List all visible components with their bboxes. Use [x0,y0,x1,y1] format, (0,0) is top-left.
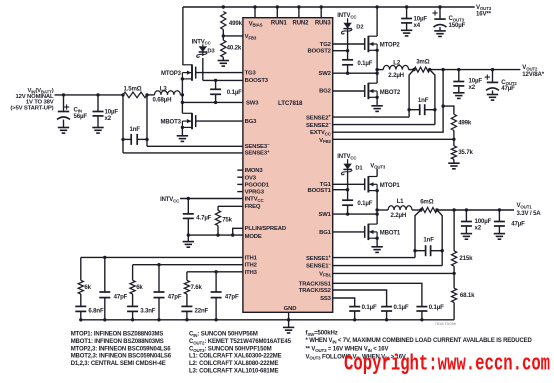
resistor 7.6k ITH3 [184,272,202,294]
pin TG2 label [320,42,332,48]
svg-text:PGOOD1: PGOOD1 [245,183,270,189]
pin SENSE3- label [245,142,270,150]
transistor MTOP2 [365,36,401,52]
svg-text:0.1µF: 0.1µF [362,304,377,311]
wire SW3 to IC [182,101,243,103]
wire SENSE1- to IC [333,265,443,267]
svg-text:MTOP2: MTOP2 [380,43,401,49]
svg-text:1nF: 1nF [418,97,429,104]
svg-text:COUT2: KEMET T521W476M016ATE45: COUT2: KEMET T521W476M016ATE45 [189,338,292,345]
wire SENSE2+ kelvin [407,70,414,118]
capacitor 3.3nF ITH2 [127,294,156,320]
ground below MBOT2 [371,97,382,111]
svg-text:1nF: 1nF [423,237,434,244]
svg-text:47µF: 47µF [511,220,525,227]
svg-text:RUN1: RUN1 [271,21,288,27]
wire BG3 gate wire [196,120,243,122]
pin GND label [284,306,297,312]
resistor 1.5mOhm sense [121,85,148,97]
pin RUN1 label [271,21,288,27]
wire 75k to gnd rail [216,226,219,237]
pin MODE label [245,234,262,240]
svg-text:499k: 499k [458,119,472,126]
resistor 75k FREQ [215,210,232,225]
svg-text:SENSE2−​: SENSE2−​ [306,121,331,129]
resistor 3mOhm sense ch2 [412,58,431,72]
svg-text:0.1µF: 0.1µF [357,60,372,67]
transistor MTOP1 [365,176,401,192]
svg-text:x2: x2 [469,84,476,91]
wire RUN1 pin stub [276,5,279,17]
wire INTVCC to IC [180,197,243,200]
svg-text:VFB2​: VFB2​ [319,138,331,144]
svg-text:TG2: TG2 [320,42,332,48]
svg-text:MTOP1: INFINEON BSZ088N03MS: MTOP1: INFINEON BSZ088N03MS [71,332,164,338]
pin TG1 label [320,182,332,188]
wire PGOOD1 pin stub [237,183,243,185]
svg-text:MBOT2,3: INFINEON BSC059N04LS6: MBOT2,3: INFINEON BSC059N04LS6 [71,354,172,360]
wire SW1 rail segment [375,191,378,225]
pin IMON3 label [245,168,264,174]
svg-text:6.8nF: 6.8nF [88,307,104,314]
svg-text:6mΩ: 6mΩ [420,199,434,206]
pin RUN3 label [315,21,332,27]
wire VFB2 divider tap jog [443,106,454,114]
wire BG2 gate wire [333,90,365,92]
svg-text:Copyright:www.eccn.com: Copyright:www.eccn.com [344,351,550,376]
capacitor 1nF ch3 filter [121,126,148,145]
wire VIN rail [55,94,124,96]
note copyright watermark [344,351,550,376]
svg-text:0.1µF: 0.1µF [357,200,372,207]
wire SENSE1- kelvin [437,210,444,266]
svg-text:INTVCC​: INTVCC​ [160,197,180,203]
wire 68.1k to ground rail [453,303,455,320]
svg-text:0.68µH: 0.68µH [153,97,172,104]
wire TG3 gate wire [196,72,243,74]
wire TG1 gate wire [333,183,365,185]
pin SENSE2+ label [306,114,331,122]
pin TG3 label [245,70,257,76]
svg-text:47pF: 47pF [168,293,182,300]
svg-text:3.3V / 5A: 3.3V / 5A [517,210,542,217]
svg-text:MTOP2,3: INFINEON BSC059N04LS6: MTOP2,3: INFINEON BSC059N04LS6 [71,347,172,353]
wire EXTVCC to VOUT2 [333,68,445,132]
diode D2 from INTVCC to BOOST2 [337,13,363,51]
pin VPRG3 label [245,190,265,196]
svg-text:IMON3: IMON3 [245,168,264,174]
pin PGOOD1 label [245,183,270,189]
wire SENSE1+ to IC [333,257,415,259]
capacitor 1nF ch1 filter [415,237,442,257]
wire BOOST2 to IC [333,50,348,52]
wire SENSE3+ left vertical [122,95,124,153]
wire bottom signal ground rail [79,318,454,321]
pin ITH3 label [245,270,258,276]
capacitor 0.1uF TRACK/SS2 [381,304,409,320]
svg-text:MTOP1: MTOP1 [380,183,401,189]
capacitor 22nF ITH3 [181,294,208,320]
svg-text:3mΩ: 3mΩ [416,58,430,65]
svg-text:L3: L3 [160,85,168,92]
svg-text:56µF: 56µF [74,113,88,120]
pin VFB1 label [319,271,331,277]
pin BG1 label [319,230,332,236]
pin VFB3 label [245,34,257,40]
svg-text:1.5mΩ: 1.5mΩ [124,85,142,92]
svg-text:16V**: 16V** [476,11,492,18]
svg-text:VBIAS​: VBIAS​ [249,21,263,27]
capacitor 47pF ITH3 [211,272,239,320]
wire SENSE2+ to IC [333,116,409,118]
wire SENSE1+ kelvin [413,210,421,258]
ground below MBOT3 [177,127,188,141]
wire SENSE2- to IC [333,124,435,126]
pin BOOST3 label [245,78,269,84]
capacitor COUT2 47uF [485,68,518,100]
resistor 6mOhm sense ch1 [419,199,439,213]
svg-text:OV3: OV3 [245,175,257,181]
wire BG1 gate wire [333,231,365,233]
node VOUT3 stub above MTOP1 [370,162,386,176]
svg-text:RUN2: RUN2 [293,21,310,27]
wire SW2 rail segment [375,50,378,83]
transistor MBOT2 [365,83,401,99]
svg-text:ITH3: ITH3 [245,270,258,276]
inductor L2 2.2uH [377,59,414,79]
pin EXTVCC label [310,130,332,136]
svg-text:BG3: BG3 [245,119,258,125]
svg-text:6k: 6k [84,284,91,291]
pin SENSE2- label [306,121,331,129]
svg-text:150µF: 150µF [449,22,466,29]
wire ITH3 to compensation network [187,270,243,273]
svg-text:L2: COILCRAFT XAL8080-222ME: L2: COILCRAFT XAL8080-222ME [189,361,278,367]
svg-text:40.2k: 40.2k [227,44,242,51]
resistor 35.7k ch2 feedback [451,146,473,159]
svg-text:INTVCC​: INTVCC​ [245,197,265,203]
wire SW2 to IC [333,72,377,74]
svg-text:MTOP3: MTOP3 [161,71,182,77]
svg-text:BOOST2: BOOST2 [307,49,331,55]
inductor L1 2.2uH [377,198,421,219]
wire VOUT1 to 215k [452,208,455,251]
svg-text:x4: x4 [414,22,421,29]
capacitor 10uF x2 ch2 out [453,68,482,99]
svg-text:* WHEN VIN < 7V, MAXIMUM COMBI: * WHEN VIN < 7V, MAXIMUM COMBINED LOAD C… [306,338,533,344]
capacitor 10uF x2 input [92,93,118,133]
wire SENSE3- right vertical [146,95,148,146]
pin TRACK/SS1 label [299,281,332,287]
svg-text:VFB3​: VFB3​ [245,34,257,40]
pin BOOST2 label [307,49,331,55]
pin OV3 label [245,175,257,181]
resistor 40.2k (VFB3 bottom) [221,40,242,57]
node VOUT3 output label [476,4,492,18]
pin SENSE1+ label [306,254,331,262]
svg-text:75k: 75k [222,216,232,223]
diode D3 from INTVCC to BOOST3 [192,39,216,80]
svg-text:68.1k: 68.1k [460,292,475,299]
svg-text:35.7k: 35.7k [458,149,473,156]
capacitor 0.1uF BOOST2 [342,49,373,75]
svg-text:D1: D1 [355,166,363,172]
capacitor 4.7uF INTVCC [183,199,212,236]
op-amp U1 LTC7818 controller IC body [243,18,333,313]
wire BOOST1 to IC [333,189,348,191]
svg-text:D2: D2 [356,25,363,31]
capacitor 0.1uF BOOST1 [342,188,373,216]
wire OV3 pin stub [237,176,243,178]
pin PLLIN/SPREAD label [245,226,286,232]
svg-text:2.2µH: 2.2µH [391,212,407,219]
wire SENSE2- kelvin [430,70,437,125]
pin TRACK/SS2 label [299,288,332,294]
capacitor 47pF ITH1 [99,257,127,319]
capacitor 10uF x4 VOUT3 [401,5,427,36]
svg-text:x2: x2 [475,224,482,231]
wire VBIAS pin stub [253,5,256,17]
note figure tag [435,321,457,326]
svg-text:ITH1: ITH1 [245,255,258,261]
wire VFB3 to IC [223,30,243,41]
wire SW3 rail segment [181,79,184,113]
svg-text:SS3: SS3 [320,296,332,302]
wire TG2 gate wire [333,43,365,45]
capacitor 47pF ITH2 [154,265,182,320]
note BOM column 2 [189,331,292,375]
transistor MTOP3 [161,64,196,80]
wire SW1 to IC [333,213,377,215]
wire top VBIAS rail [183,6,475,8]
note operating conditions [306,330,533,361]
svg-text:47pF: 47pF [225,293,239,300]
pin RUN2 label [293,21,310,27]
svg-text:TRACK/SS2: TRACK/SS2 [299,288,332,294]
inductor L3 0.68uH [147,85,182,103]
node VOUT2 label [522,64,544,78]
pin FREQ label [245,204,261,210]
svg-text:x2: x2 [105,115,112,122]
pin SS3 label [320,296,332,302]
svg-text:7818 TA05b: 7818 TA05b [435,321,457,326]
capacitor 0.1uF BOOST3 [210,79,242,104]
capacitor COUT3 150uF [432,5,465,36]
wire VFB2 to IC [333,138,454,140]
svg-text:SENSE3+​: SENSE3+​ [245,149,270,157]
svg-text:BG2: BG2 [319,88,332,94]
svg-text:0.1µF: 0.1µF [227,89,242,96]
svg-text:6k: 6k [136,284,143,291]
wire SENSE3+ to IC [123,152,243,154]
svg-text:SW1: SW1 [318,212,331,218]
wire TRACK/SS2 to cap [333,290,387,307]
svg-text:MBOT1: INFINEON BSZ088N03MS: MBOT1: INFINEON BSZ088N03MS [71,339,164,345]
svg-text:7.6k: 7.6k [191,284,203,291]
node rail-499k junction [222,5,225,8]
resistor 6k ITH2 [130,265,143,294]
svg-text:EXTVCC​: EXTVCC​ [310,130,332,136]
svg-text:MODE: MODE [245,234,262,240]
pin SW3 label [246,100,259,106]
svg-text:4.7µF: 4.7µF [196,214,211,221]
svg-text:L1: COILCRAFT XAL60300-222ME: L1: COILCRAFT XAL60300-222ME [189,354,282,360]
svg-text:1nF: 1nF [130,126,141,133]
node INTVCC net label [160,197,180,203]
pin BG2 label [319,88,332,94]
svg-text:SENSE1−​: SENSE1−​ [306,262,331,270]
resistor 215k ch1 feedback [452,251,474,266]
wire TRACK/SS1 to cap [333,283,422,306]
ground IC GND pin [283,327,294,333]
ground below MBOT1 [371,238,382,252]
pin VBIAS label [249,21,263,27]
note BOM column 1 [71,332,172,367]
svg-text:TRACK/SS1: TRACK/SS1 [299,281,332,287]
resistor 6k ITH1 [78,257,91,294]
transistor MBOT3 [161,113,196,129]
svg-text:MBOT3: MBOT3 [161,120,182,126]
svg-text:FREQ: FREQ [245,204,261,210]
wire VOUT1 rail [437,209,514,211]
svg-text:47µF: 47µF [501,85,515,92]
pin INTVCC label [245,197,265,203]
wire BOOST3 to IC [203,79,243,81]
svg-text:0.1µF: 0.1µF [394,304,409,311]
svg-text:BOOST1: BOOST1 [307,188,331,194]
svg-text:PLLIN/SPREAD: PLLIN/SPREAD [245,226,286,232]
pin ITH1 label [245,255,258,261]
wire rail down to MTOP3 drain [182,7,184,65]
pin SW1 label [318,212,331,218]
svg-text:SW3: SW3 [246,100,259,106]
wire SENSE3- to IC [147,145,243,147]
svg-text:D1,2,3: CENTRAL SEMI CMDSH-4E: D1,2,3: CENTRAL SEMI CMDSH-4E [71,361,166,367]
ground INTVCC decouple [183,235,194,247]
wire VFB1 to IC [333,272,454,274]
svg-text:VPRG3: VPRG3 [245,190,265,196]
wire RUN2 pin stub [297,5,300,17]
svg-text:47pF: 47pF [114,293,128,300]
capacitor 0.1uF TRACK/SS1 [416,304,444,320]
node VOUT1 label [517,202,542,217]
svg-text:LTC7818: LTC7818 [278,100,303,107]
svg-text:12V/8A*: 12V/8A* [522,71,544,78]
wire MODE ground rail [187,233,243,236]
wire ITH1 to compensation network [81,256,243,259]
svg-text:SW2: SW2 [318,71,331,77]
node VFB1 junction [452,266,455,288]
svg-text:ITH2: ITH2 [245,263,258,269]
wire FREQ to 75k [218,206,243,210]
svg-text:CIN: SUNCON 50HVP56M: CIN: SUNCON 50HVP56M [189,331,258,338]
capacitor 0.1uF SS3 [349,304,377,320]
svg-text:TG3: TG3 [245,70,257,76]
svg-text:22nF: 22nF [195,307,209,314]
capacitor CIN 56uF [57,93,87,133]
capacitor 6.8nF ITH1 [75,294,104,320]
wire GND pin to ground [288,312,290,327]
wire ITH2 to compensation network [133,263,243,266]
pin BOOST1 label [307,188,331,194]
transistor MBOT1 [365,224,401,240]
node VFB2 junction [452,130,455,146]
resistor 499k ch2 feedback [451,114,472,130]
svg-text:MBOT2: MBOT2 [380,90,401,96]
resistor 499k (VFB3 top) [221,12,243,30]
node VFB3 junction [222,34,225,37]
capacitor 1nF ch2 filter [409,97,435,115]
svg-text:215k: 215k [459,255,473,262]
wire SS3 to cap [333,298,355,307]
node VIN label text [10,88,54,111]
svg-text:L1: L1 [397,198,405,205]
svg-text:499k: 499k [229,20,243,27]
wire MTOP2 drain rail up [375,5,378,36]
svg-text:3.3nF: 3.3nF [140,307,156,314]
wire IMON3 pin stub [237,169,243,171]
capacitor 100uF x2 ch1 out [461,208,492,239]
svg-text:(>5V START-UP): (>5V START-UP) [10,105,53,111]
pin VFB2 label [319,138,331,144]
ground below 35.7k [448,159,459,169]
pin SENSE1- label [306,262,331,270]
wire VOUT2 rail [430,69,521,71]
pin SENSE3+ label [245,149,270,157]
wire PLLIN/SPREAD to gnd [231,228,243,237]
svg-text:GND: GND [284,306,297,312]
diode D1 from INTVCC to BOOST1 [337,154,363,190]
ground below 40.2k [218,57,229,66]
pin SW2 label [318,71,331,77]
svg-text:L2: L2 [393,59,401,66]
capacitor 47uF ch1 out [494,208,525,239]
svg-text:BG1: BG1 [319,230,332,236]
svg-text:BOOST3: BOOST3 [245,78,269,84]
resistor 68.1k ch1 feedback [452,288,476,302]
svg-text:MBOT1: MBOT1 [380,231,401,237]
wire RUN3 pin stub [320,5,323,17]
wire VPRG3 pin stub [237,191,243,193]
pin ITH2 label [245,263,258,269]
svg-text:RUN3: RUN3 [315,21,332,27]
svg-text:L3: COILCRAFT XAL1010-681ME: L3: COILCRAFT XAL1010-681ME [189,368,278,374]
svg-text:D3: D3 [207,49,215,55]
svg-text:2.2µH: 2.2µH [388,72,404,79]
svg-text:INTVCC​: INTVCC​ [192,39,212,45]
pin BG3 label [245,119,258,125]
svg-text:0.1µF: 0.1µF [429,304,444,311]
svg-text:VFB1​: VFB1​ [319,271,331,277]
